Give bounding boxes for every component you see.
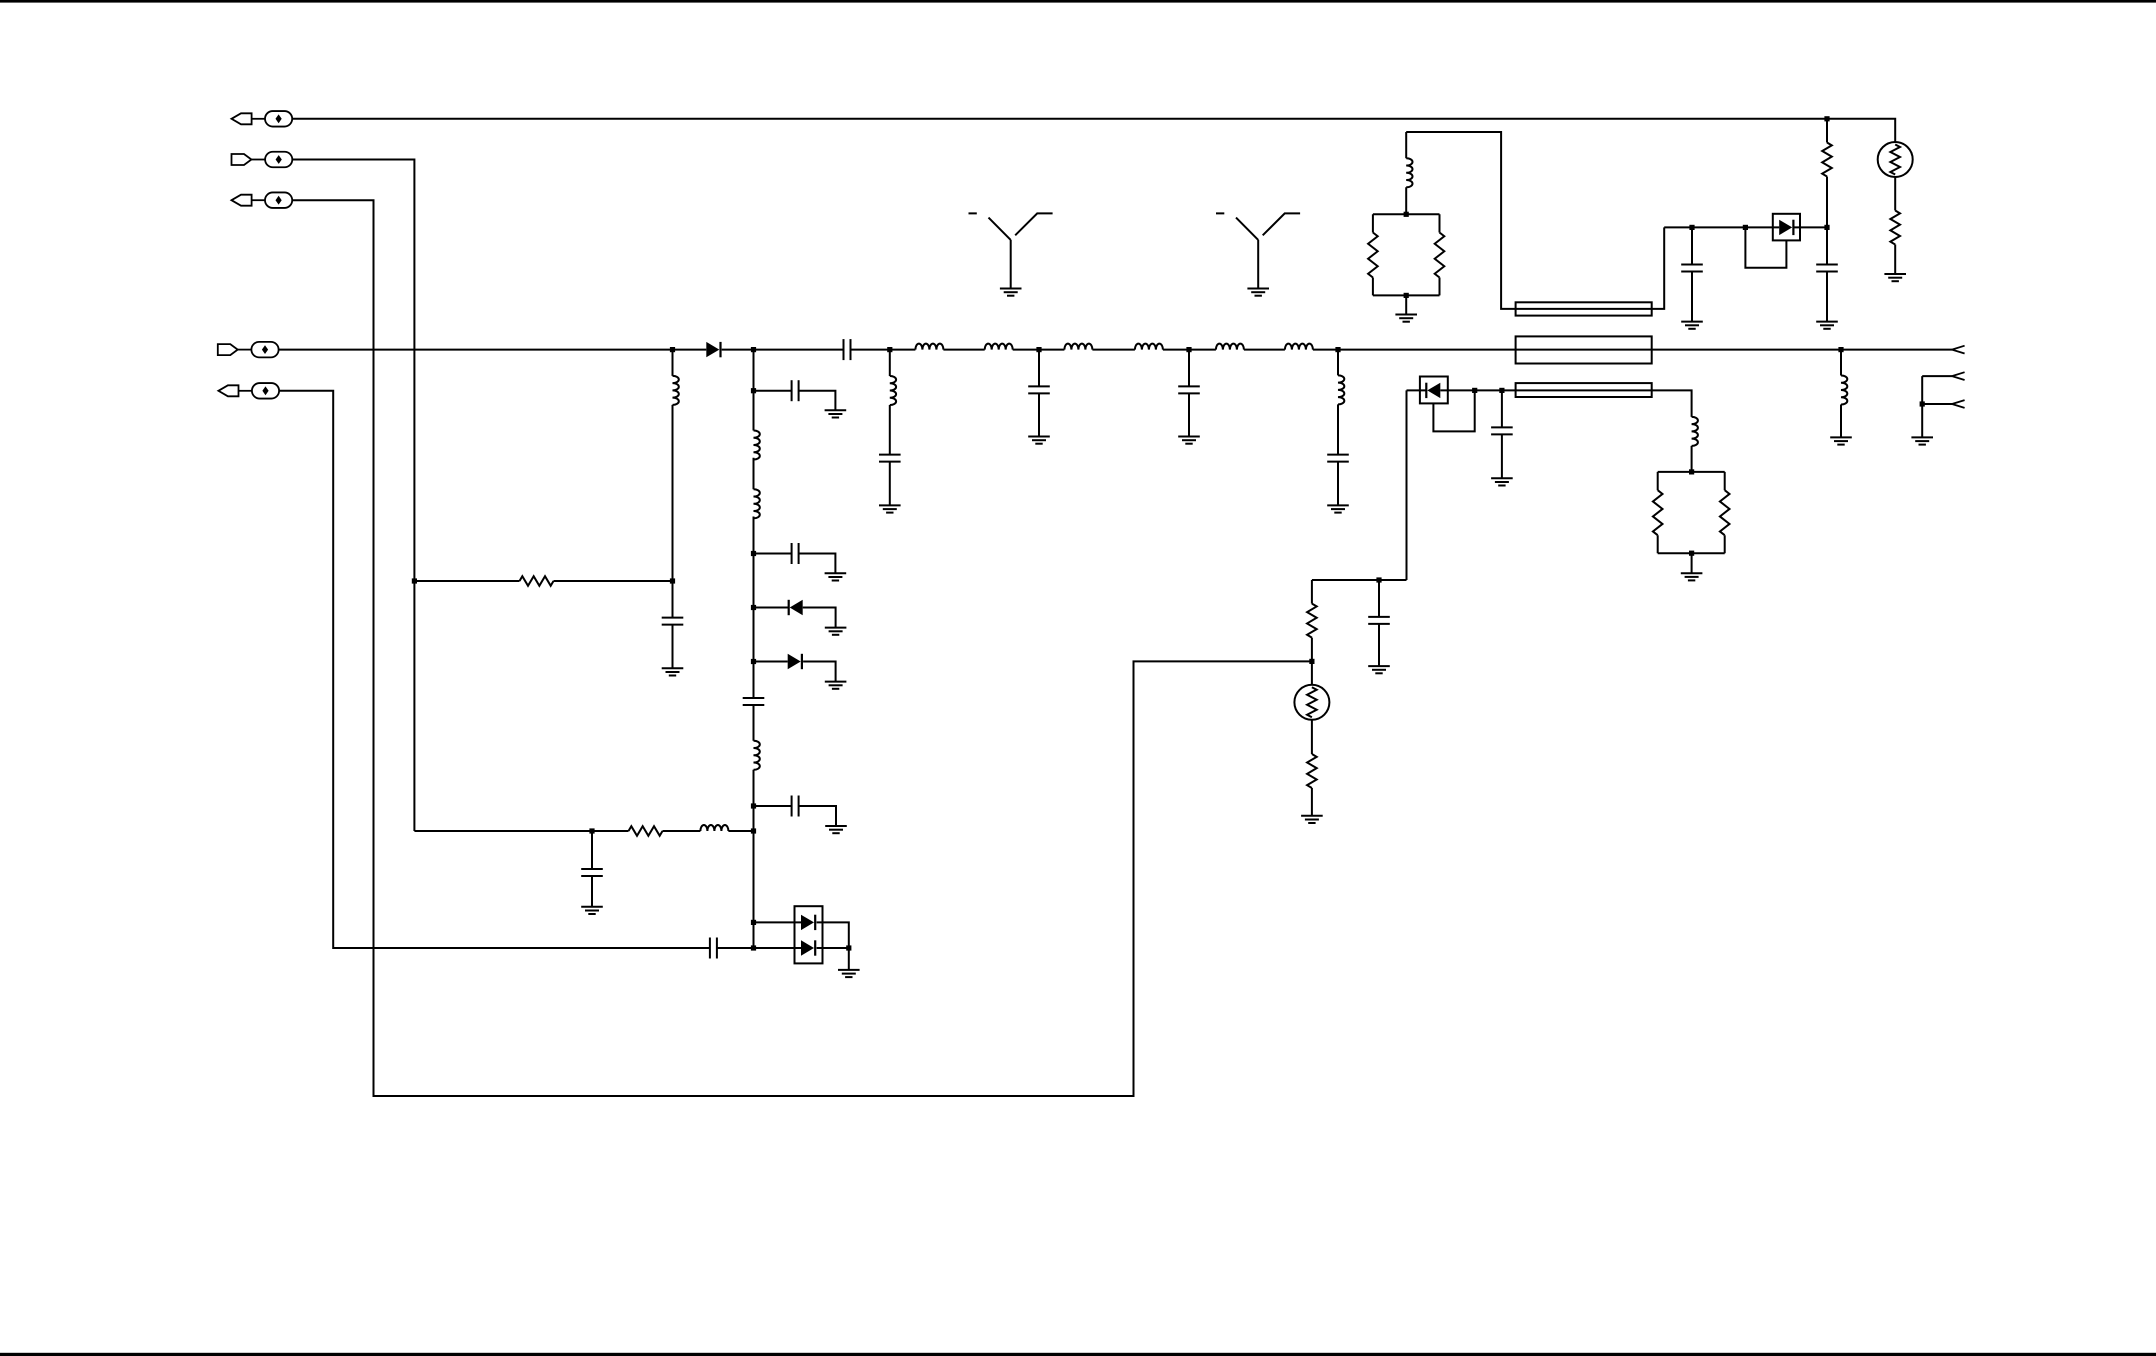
wire y580 row bbox=[1312, 579, 1407, 581]
wire tap3 bbox=[754, 608, 836, 628]
inductor L3 bbox=[1064, 344, 1092, 350]
ground under R6 bbox=[1884, 274, 1906, 281]
stripline Z1 bbox=[1516, 302, 1652, 315]
capacitor C12 bbox=[1327, 455, 1349, 462]
node chain tap 1 bbox=[751, 388, 756, 393]
resistor R1 (row y581) bbox=[520, 576, 554, 586]
wire CR6 left leg down bbox=[1406, 390, 1408, 580]
ground under C16 bbox=[1368, 666, 1390, 673]
wire J2 down to resistor row bbox=[292, 160, 414, 832]
arrow off-page 3 bbox=[1952, 400, 1965, 408]
inductor L15 bbox=[1841, 375, 1847, 404]
ground under C15 bbox=[1491, 478, 1513, 485]
wire top-left L network bbox=[1406, 132, 1515, 309]
ground branch G bbox=[1830, 437, 1852, 444]
ground branch E bbox=[1178, 437, 1200, 444]
node parallel pair 1 bottom bbox=[1404, 293, 1409, 298]
resistor R10 bbox=[1307, 754, 1317, 788]
arrow off-page 2 bbox=[1952, 372, 1965, 380]
diode CR1 on main line bbox=[706, 342, 720, 357]
wire tap2 cap down bbox=[1501, 390, 1503, 478]
connector J3 (out-arrow) bbox=[232, 192, 293, 208]
capacitor C7 bbox=[792, 796, 799, 817]
inductor L1 bbox=[915, 344, 943, 350]
node dual diode output bbox=[846, 945, 851, 950]
node main junction E bbox=[1186, 347, 1191, 352]
node chain tap 4 bbox=[751, 659, 756, 664]
capacitor C15 bbox=[1491, 427, 1513, 434]
wire inductor leg bbox=[1405, 132, 1407, 214]
wire branch A down bbox=[672, 350, 674, 669]
diode CR2 (cathode left) bbox=[789, 600, 803, 615]
node junction on TOP net bbox=[1824, 116, 1829, 121]
wire Z1 centerline bbox=[1516, 227, 1665, 309]
ground pair2 bbox=[1681, 573, 1703, 580]
ground under C3 bbox=[581, 907, 603, 914]
node main junction D bbox=[1036, 347, 1041, 352]
resistor R5 bbox=[1822, 143, 1832, 177]
node thermistor junction bbox=[1309, 659, 1314, 664]
capacitor C14 bbox=[1816, 265, 1838, 272]
capacitor C6 bbox=[792, 543, 799, 564]
inductor L13 bbox=[1338, 375, 1344, 404]
wire into dual diode top bbox=[754, 922, 849, 948]
wire main RF line bbox=[279, 349, 1952, 351]
resistor R8 bbox=[1720, 490, 1730, 535]
stripline Z2 on main line bbox=[1516, 336, 1652, 363]
node main junction F bbox=[1335, 347, 1340, 352]
ground tap4 bbox=[825, 682, 847, 689]
node junction J2-vert y581 bbox=[412, 578, 417, 583]
diode CR4b bbox=[801, 940, 815, 955]
resistor R4 bbox=[1435, 233, 1445, 278]
inductor L11 bbox=[754, 741, 760, 770]
wire pair2 ground lead bbox=[1691, 553, 1693, 573]
inductor L12 bbox=[890, 376, 896, 405]
node bias tap 1 bbox=[1689, 225, 1694, 230]
wire cap tap down bbox=[591, 831, 593, 907]
capacitor C1 series on main line bbox=[844, 339, 851, 360]
diode package CR6 box bbox=[1420, 377, 1448, 404]
wire off-page pair right bbox=[1922, 376, 1952, 437]
ground branch F bbox=[1327, 505, 1349, 512]
ground under C2 bbox=[662, 668, 684, 675]
diode CR5 bbox=[1779, 220, 1793, 235]
thermistor RT1 bbox=[1878, 142, 1913, 177]
wire thermistor chain bbox=[1311, 580, 1313, 816]
ground tap1 bbox=[825, 410, 847, 417]
ground tap3 bbox=[825, 628, 847, 635]
ground dual diode bbox=[838, 970, 860, 977]
wire tap5 bbox=[754, 806, 837, 826]
ground bias tap1 bbox=[1681, 322, 1703, 329]
wire bias tap1 down bbox=[1691, 227, 1693, 321]
ground tap2 bbox=[825, 573, 847, 580]
inductor L4 bbox=[1135, 344, 1163, 350]
inductor L14 bbox=[1406, 158, 1412, 187]
shield symbol Y2 bbox=[1216, 213, 1300, 288]
wire branch F bbox=[1337, 350, 1339, 506]
wire branch G bbox=[1840, 350, 1842, 438]
node chain row y831 bbox=[751, 828, 756, 833]
arrow off-page main line bbox=[1952, 346, 1965, 354]
inductor L9 bbox=[754, 430, 760, 459]
wire tap4 bbox=[754, 662, 836, 682]
resistor R3 bbox=[1368, 233, 1378, 278]
inductor L16 bbox=[1692, 417, 1698, 446]
capacitor C3 shunt bbox=[581, 869, 603, 876]
diode CR4a bbox=[801, 915, 815, 930]
wire RT1 to resistor bbox=[1894, 177, 1896, 274]
inductor L6 bbox=[1285, 344, 1313, 350]
wire pair1 to ground bbox=[1405, 295, 1407, 314]
ground branch C bbox=[879, 505, 901, 512]
ground tap5 bbox=[825, 826, 847, 833]
node main junction C bbox=[887, 347, 892, 352]
inductor L5 bbox=[1216, 344, 1244, 350]
ground branch D bbox=[1028, 437, 1050, 444]
dual diode package CR4 box bbox=[795, 906, 823, 963]
wire J3 long loop to bottom and up to thermistor node bbox=[292, 200, 1312, 1096]
capacitor C8 series on bottom line bbox=[710, 938, 717, 959]
wire branch B vertical chain bbox=[753, 350, 755, 948]
node main junction G bbox=[1838, 347, 1843, 352]
resistor R7 bbox=[1653, 490, 1663, 535]
wire branch E bbox=[1188, 350, 1190, 437]
diode CR3 (cathode right) bbox=[788, 654, 802, 669]
ground under R10 bbox=[1301, 816, 1323, 823]
wire resistor row y581 bbox=[414, 580, 672, 582]
wire net TOP: J1 to top-right corner bbox=[292, 119, 1895, 142]
stripline Z3 bbox=[1516, 383, 1652, 397]
wire tap1 bbox=[754, 391, 836, 411]
border bar bottom bbox=[0, 1353, 2156, 1356]
wire diode box1 loop bbox=[1745, 227, 1786, 267]
capacitor C9 bbox=[879, 455, 901, 462]
wire resistor leg 1827 bbox=[1826, 119, 1828, 322]
node parallel pair 1 top bbox=[1404, 212, 1409, 217]
node main junction B bbox=[751, 347, 756, 352]
wire parallel pair 2 rails bbox=[1658, 472, 1725, 553]
node bias junction at resistor leg bbox=[1824, 225, 1829, 230]
wire J5 to bottom diode line bbox=[279, 391, 710, 948]
capacitor C5 bbox=[792, 380, 799, 401]
capacitor C16 bbox=[1368, 617, 1390, 624]
wire bottom line through cap into dual diode bbox=[717, 948, 849, 970]
connector J4 (main RF input) bbox=[218, 342, 279, 358]
node y390 tap 1 bbox=[1472, 388, 1477, 393]
ground Y1 bbox=[1000, 289, 1022, 296]
capacitor C10 bbox=[1028, 386, 1050, 393]
wire row y831 bbox=[414, 830, 753, 832]
node chain tap 3 bbox=[751, 605, 756, 610]
connector J5 (out-arrow) bbox=[218, 383, 279, 399]
wire Z3 centerline and right lead bbox=[1516, 390, 1692, 472]
node junction on branch A at resistor row bbox=[670, 578, 675, 583]
node chain top diode tap bbox=[751, 920, 756, 925]
wire line y390 left bbox=[1407, 389, 1516, 391]
ground Y2 bbox=[1247, 289, 1269, 296]
capacitor C4 series vertical bbox=[743, 698, 765, 705]
border bar top bbox=[0, 0, 2156, 3]
connector J1 (top left, out-arrow) bbox=[232, 111, 293, 127]
resistor R2 (row y831) bbox=[629, 826, 663, 836]
wire bias line y227 bbox=[1664, 226, 1827, 228]
node main junction A bbox=[670, 347, 675, 352]
diode package CR5 box bbox=[1773, 214, 1800, 241]
capacitor C2 shunt bbox=[662, 618, 684, 625]
node bias tap 2 bbox=[1743, 225, 1748, 230]
node y580 cap tap bbox=[1376, 577, 1381, 582]
node chain tap 2 bbox=[751, 551, 756, 556]
inductor L7 bbox=[673, 376, 679, 405]
resistor R9 bbox=[1307, 604, 1317, 638]
node off-page junction bbox=[1920, 401, 1925, 406]
inductor L10 bbox=[754, 489, 760, 518]
inductor L8 (row y831) bbox=[700, 825, 728, 831]
ground under C14 bbox=[1816, 322, 1838, 329]
wire branch C bbox=[889, 350, 891, 506]
node chain bottom diode tap bbox=[751, 945, 756, 950]
node parallel pair 2 bottom bbox=[1689, 551, 1694, 556]
node y390 tap 2 bbox=[1499, 388, 1504, 393]
wire branch D bbox=[1038, 350, 1040, 437]
inductor L2 bbox=[985, 344, 1013, 350]
wire y580 cap down bbox=[1378, 580, 1380, 666]
shield symbol Y1 bbox=[969, 213, 1053, 288]
node parallel pair 2 top bbox=[1689, 469, 1694, 474]
node junction y831 cap tap bbox=[589, 828, 594, 833]
wire parallel pair 1 rails bbox=[1373, 214, 1440, 295]
capacitor C13 bbox=[1681, 265, 1703, 272]
ground off-page pair bbox=[1911, 437, 1933, 444]
connector J2 (in-arrow) bbox=[232, 152, 293, 168]
resistor R6 bbox=[1890, 211, 1900, 245]
thermistor RT2 bbox=[1294, 685, 1329, 720]
capacitor C11 bbox=[1178, 386, 1200, 393]
diode CR6 (cathode left) bbox=[1426, 383, 1440, 398]
wire tap2 bbox=[754, 554, 836, 574]
wire CR6 loop bbox=[1433, 390, 1474, 431]
ground pair1 bbox=[1395, 315, 1417, 322]
node chain tap 5 bbox=[751, 803, 756, 808]
